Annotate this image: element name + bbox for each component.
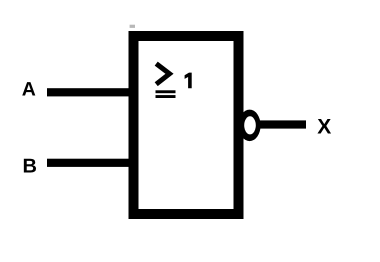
qualifier chevron of ">=1" label xyxy=(156,64,169,85)
stray ink mark above top-left corner of gate body xyxy=(130,25,135,28)
svg-text:A: A xyxy=(22,78,36,100)
qualifier upper bar of double-equals xyxy=(156,90,176,93)
output wire X xyxy=(256,120,306,128)
svg-text:B: B xyxy=(23,155,37,177)
svg-text:X: X xyxy=(317,115,331,138)
inversion bubble inner opening xyxy=(244,116,256,134)
qualifier lower bar of double-equals xyxy=(156,95,176,98)
inversion bubble outer ring xyxy=(239,110,261,142)
input wire A xyxy=(47,88,134,96)
qualifier numeral 1 xyxy=(185,73,192,89)
input wire B xyxy=(47,159,134,167)
NOR gate body U1 (IEC rectangular OR symbol) xyxy=(134,36,239,214)
